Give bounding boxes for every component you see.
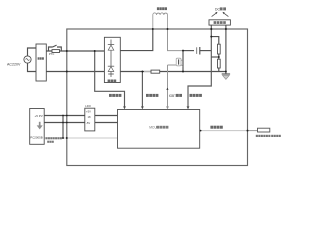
svg-text:+5V: +5V bbox=[86, 109, 91, 113]
svg-text:PTC: PTC bbox=[49, 52, 54, 56]
svg-text:18: 18 bbox=[88, 115, 91, 119]
svg-text:LDO: LDO bbox=[85, 104, 91, 108]
svg-text:IGBT: IGBT bbox=[169, 94, 176, 98]
svg-text:+5 PV: +5 PV bbox=[35, 114, 43, 118]
svg-text:AC220V: AC220V bbox=[7, 63, 21, 67]
svg-text:DC: DC bbox=[215, 7, 220, 11]
svg-text:-5V: -5V bbox=[86, 121, 90, 125]
svg-text:PC2005B: PC2005B bbox=[30, 136, 42, 140]
svg-text:MCU: MCU bbox=[149, 126, 157, 130]
